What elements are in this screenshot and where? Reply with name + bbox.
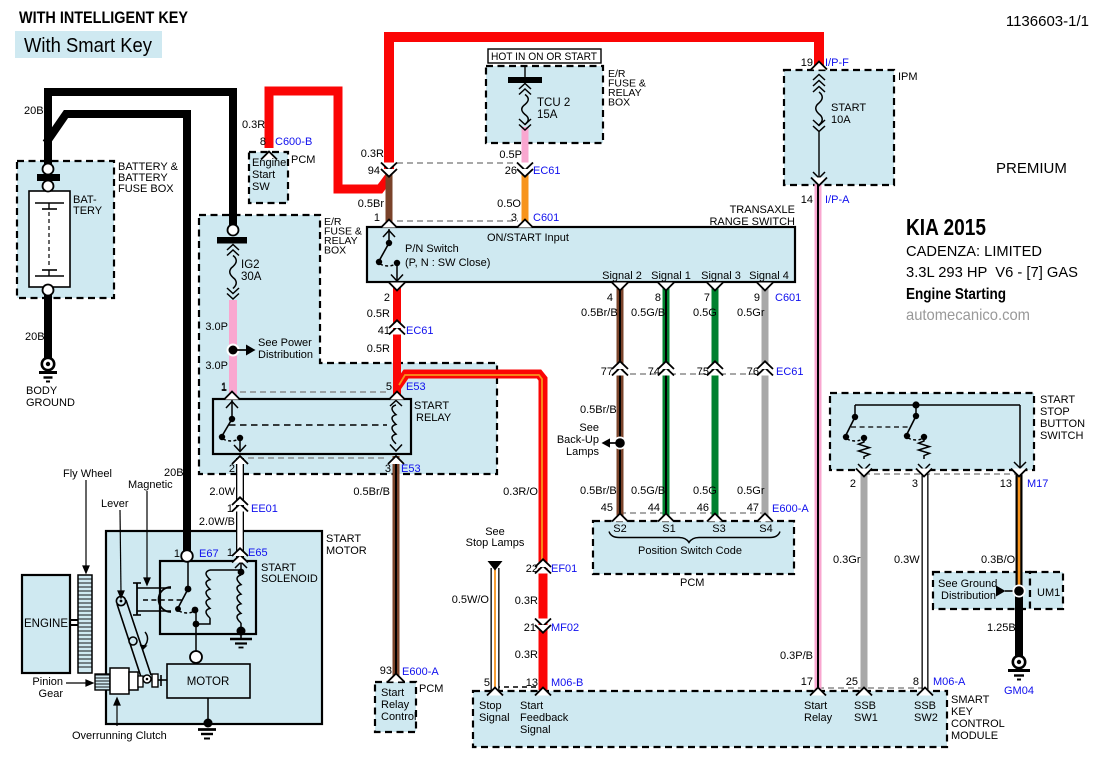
svg-text:S2: S2 bbox=[613, 523, 626, 535]
svg-text:Distribution: Distribution bbox=[941, 590, 996, 602]
svg-text:EF01: EF01 bbox=[551, 563, 577, 575]
svg-text:41: 41 bbox=[378, 325, 390, 337]
fly wheel bbox=[78, 575, 92, 673]
svg-text:BUTTON: BUTTON bbox=[1040, 418, 1085, 430]
ground GM04 bbox=[1008, 656, 1030, 680]
svg-text:ENGINE: ENGINE bbox=[24, 616, 68, 630]
svg-text:START: START bbox=[831, 102, 866, 114]
svg-text:4: 4 bbox=[607, 292, 613, 304]
start solenoid switch bbox=[175, 550, 202, 663]
svg-text:2: 2 bbox=[850, 478, 856, 490]
svg-text:0.5Br/B: 0.5Br/B bbox=[580, 404, 617, 416]
svg-text:M06-B: M06-B bbox=[551, 677, 583, 689]
svg-text:93: 93 bbox=[380, 665, 392, 677]
svg-text:0.5G/B: 0.5G/B bbox=[631, 485, 665, 497]
svg-text:3: 3 bbox=[385, 463, 391, 475]
svg-text:2: 2 bbox=[229, 463, 235, 475]
svg-text:SSB: SSB bbox=[854, 700, 876, 712]
connector 77 EC61 bbox=[612, 361, 628, 375]
wire 0.3B/O SSB pin13 to UM1 node (black/orange) bbox=[1016, 474, 1023, 592]
svg-text:START: START bbox=[1040, 394, 1075, 406]
svg-text:2.0W: 2.0W bbox=[209, 486, 235, 498]
svg-text:IG2: IG2 bbox=[241, 259, 260, 271]
svg-text:Start: Start bbox=[520, 700, 543, 712]
svg-text:STOP: STOP bbox=[1040, 406, 1070, 418]
connector line EC61 (94-26) bbox=[397, 162, 518, 164]
wire 20B battery to start motor E67 (black) bbox=[46, 114, 187, 552]
wire 0.3R/O relay pin5 node to EF01 pin22 (red/orange) bbox=[397, 374, 543, 564]
connector 13 M06-B bbox=[535, 688, 551, 696]
box: start relay control (PCM) bbox=[375, 682, 416, 732]
connector 3 E53 out bbox=[388, 456, 404, 464]
svg-text:1: 1 bbox=[174, 548, 180, 560]
svg-text:1: 1 bbox=[227, 547, 233, 559]
svg-text:EC61: EC61 bbox=[776, 366, 804, 378]
connector 17 M06-A bbox=[810, 688, 826, 696]
connector 2 transaxle out bbox=[389, 283, 405, 291]
svg-text:Start: Start bbox=[252, 169, 275, 181]
connector 1 ER box bbox=[381, 220, 397, 228]
svg-text:Gear: Gear bbox=[39, 688, 64, 700]
svg-text:KIA 2015: KIA 2015 bbox=[906, 214, 986, 240]
svg-text:Signal 4: Signal 4 bbox=[749, 270, 789, 282]
svg-text:0.5O: 0.5O bbox=[497, 198, 521, 210]
svg-text:BOX: BOX bbox=[324, 245, 346, 257]
svg-text:START: START bbox=[326, 533, 361, 545]
connector 3 M17 bbox=[916, 469, 932, 477]
svg-text:PCM: PCM bbox=[291, 154, 315, 166]
svg-text:0.3B/O: 0.3B/O bbox=[981, 554, 1016, 566]
svg-text:0.5Br/B: 0.5Br/B bbox=[580, 485, 617, 497]
box: E/R fuse & relay box (IG2 + start relay), L-shaped bbox=[199, 215, 497, 474]
svg-text:Control: Control bbox=[381, 711, 416, 723]
svg-text:0.5P: 0.5P bbox=[499, 149, 522, 161]
svg-text:SOLENOID: SOLENOID bbox=[261, 573, 318, 585]
svg-text:3: 3 bbox=[912, 478, 918, 490]
box: motor bbox=[167, 664, 250, 698]
svg-text:MOTOR: MOTOR bbox=[326, 545, 367, 557]
svg-text:GROUND: GROUND bbox=[26, 397, 75, 409]
box: HOT IN ON OR START bbox=[488, 49, 601, 63]
fuse IG2 30A bbox=[217, 225, 247, 300]
svg-text:0.5Br/B: 0.5Br/B bbox=[353, 486, 390, 498]
svg-text:GM04: GM04 bbox=[1004, 685, 1034, 697]
svg-text:3: 3 bbox=[511, 212, 517, 224]
connector line E600-A signals (45-47) bbox=[620, 512, 768, 514]
svg-text:15A: 15A bbox=[537, 109, 558, 121]
svg-text:8: 8 bbox=[913, 676, 919, 688]
svg-text:0.3R: 0.3R bbox=[515, 595, 538, 607]
start relay switch contact bbox=[219, 399, 246, 452]
connector 2 E53 out bbox=[232, 456, 248, 464]
svg-text:EE01: EE01 bbox=[251, 503, 278, 515]
wire 1.25B UM1 node to GM04 ground (black) bbox=[1015, 590, 1023, 656]
svg-text:Relay: Relay bbox=[804, 712, 833, 724]
svg-text:0.3P/B: 0.3P/B bbox=[780, 650, 813, 662]
body ground symbol bbox=[39, 358, 57, 382]
svg-text:I/P-A: I/P-A bbox=[825, 194, 850, 206]
svg-text:I/P-F: I/P-F bbox=[825, 57, 849, 69]
svg-text:Signal 1: Signal 1 bbox=[651, 270, 691, 282]
svg-text:1: 1 bbox=[227, 503, 233, 515]
svg-text:0.3R: 0.3R bbox=[515, 649, 538, 661]
svg-text:Lever: Lever bbox=[101, 498, 129, 510]
see stop lamps arrow bbox=[488, 561, 503, 571]
svg-text:20B: 20B bbox=[164, 467, 184, 479]
svg-text:13: 13 bbox=[1000, 478, 1012, 490]
wire 2.0W relay pin2 to EE01 to E65 (white) bbox=[236, 458, 244, 558]
svg-text:0.3W: 0.3W bbox=[894, 554, 920, 566]
svg-text:19: 19 bbox=[801, 57, 813, 69]
connector 8 C601 bbox=[658, 283, 674, 291]
svg-text:Fly Wheel: Fly Wheel bbox=[63, 468, 112, 480]
wire 20B battery to body ground (black) bbox=[44, 292, 52, 358]
box: battery & battery fuse box bbox=[17, 161, 114, 298]
solenoid plunger (magnetic) bbox=[133, 583, 184, 615]
svg-text:0.5Gr: 0.5Gr bbox=[737, 307, 765, 319]
svg-text:MF02: MF02 bbox=[551, 622, 579, 634]
svg-text:HOT IN ON OR START: HOT IN ON OR START bbox=[491, 51, 597, 63]
svg-text:(P, N : SW Close): (P, N : SW Close) bbox=[405, 257, 490, 269]
wire 0.5R transaxle pin2 to EC61 41 to relay pin5 (red) bbox=[393, 284, 401, 396]
svg-text:START: START bbox=[414, 400, 449, 412]
wire 0.3R EF01 to MF02 to M06-B pin13 (red) bbox=[539, 568, 548, 690]
svg-text:5: 5 bbox=[484, 677, 490, 689]
svg-text:SW: SW bbox=[252, 181, 270, 193]
svg-text:Overrunning Clutch: Overrunning Clutch bbox=[72, 730, 167, 742]
svg-text:PCM: PCM bbox=[680, 577, 704, 589]
svg-text:M06-A: M06-A bbox=[933, 676, 966, 688]
svg-text:MODULE: MODULE bbox=[951, 730, 998, 742]
connector 22 EF01 bbox=[535, 559, 551, 573]
svg-text:P/N Switch: P/N Switch bbox=[405, 243, 459, 255]
connector 1 E53 pink bbox=[224, 392, 240, 400]
wire 0.3Gr SSB pin2 to M06-A pin25 (gray) bbox=[861, 474, 868, 690]
motor to ground bbox=[198, 698, 216, 739]
svg-text:E53: E53 bbox=[401, 463, 421, 475]
svg-text:75: 75 bbox=[697, 366, 709, 378]
svg-text:14: 14 bbox=[801, 194, 813, 206]
svg-text:8: 8 bbox=[655, 292, 661, 304]
svg-text:CONTROL: CONTROL bbox=[951, 718, 1005, 730]
svg-text:CADENZA: LIMITED: CADENZA: LIMITED bbox=[906, 243, 1042, 260]
wire 0.5Br/B relay pin3 to E600-A pin93 (brown/black) bbox=[393, 456, 400, 677]
svg-text:1: 1 bbox=[221, 381, 227, 393]
svg-text:BODY: BODY bbox=[26, 385, 58, 397]
svg-text:0.5G: 0.5G bbox=[693, 485, 717, 497]
box: start stop button switch bbox=[830, 393, 1034, 470]
svg-text:UM1: UM1 bbox=[1037, 587, 1060, 599]
connector line E53 bottom (2-3) bbox=[248, 457, 388, 459]
svg-text:0.5Br: 0.5Br bbox=[358, 198, 385, 210]
svg-text:0.5R: 0.5R bbox=[367, 343, 390, 355]
svg-text:SMART: SMART bbox=[951, 694, 990, 706]
see back-up lamps node bbox=[602, 437, 627, 450]
svg-text:2.0W/B: 2.0W/B bbox=[199, 516, 235, 528]
connector line M06-A (17-8) bbox=[818, 687, 925, 689]
svg-text:See Ground: See Ground bbox=[938, 578, 997, 590]
box: UM1 bbox=[1030, 572, 1063, 609]
svg-text:S3: S3 bbox=[712, 523, 725, 535]
svg-text:46: 46 bbox=[697, 502, 709, 514]
box: engine bbox=[22, 575, 70, 673]
svg-text:ON/START Input: ON/START Input bbox=[487, 232, 569, 244]
svg-text:Feedback: Feedback bbox=[520, 712, 569, 724]
wire 0.5Gr signal4 (gray) bbox=[762, 284, 769, 520]
box: start motor bbox=[106, 531, 322, 724]
wire 0.5P TCU2 fuse to EC61 pin26 (pink) bbox=[522, 127, 529, 168]
connector 14 I/P-A bbox=[811, 178, 827, 186]
svg-text:automecanico.com: automecanico.com bbox=[906, 307, 1030, 324]
wire 3.0P IG2 fuse to start relay pin1 (pink) bbox=[229, 300, 237, 396]
svg-text:1: 1 bbox=[374, 212, 380, 224]
wire 0.3P/B IPM I/P-A to smart key pin17 (pink/black) bbox=[815, 184, 822, 690]
svg-text:EC61: EC61 bbox=[406, 325, 434, 337]
connector 1 EE01 bbox=[232, 497, 248, 511]
box: smart key control module bbox=[473, 691, 947, 747]
svg-text:Signal 3: Signal 3 bbox=[701, 270, 741, 282]
connector 4 C601 bbox=[612, 283, 628, 291]
svg-text:76: 76 bbox=[747, 366, 759, 378]
connector 93 E600-A bbox=[388, 674, 404, 682]
svg-text:94: 94 bbox=[368, 165, 380, 177]
connector 46 E600-A bbox=[707, 514, 723, 522]
svg-text:47: 47 bbox=[747, 502, 759, 514]
svg-text:TERY: TERY bbox=[73, 205, 103, 217]
svg-text:0.3R: 0.3R bbox=[242, 119, 265, 131]
svg-text:22: 22 bbox=[526, 563, 538, 575]
connector 9 C601 bbox=[757, 283, 773, 291]
connector line M17 (2-13) bbox=[864, 473, 1019, 475]
svg-text:8: 8 bbox=[260, 136, 266, 148]
connector line E53 top (1-5) bbox=[240, 391, 389, 393]
connector 47 E600-A bbox=[757, 514, 773, 522]
svg-text:E67: E67 bbox=[199, 548, 219, 560]
battery terminal connector circles bbox=[43, 164, 54, 175]
svg-text:C601: C601 bbox=[533, 212, 559, 224]
start stop button switch internals bbox=[843, 401, 1026, 470]
svg-text:Stop Lamps: Stop Lamps bbox=[466, 537, 525, 549]
box: start relay bbox=[213, 399, 411, 454]
box: see ground distribution bbox=[933, 572, 1030, 609]
fusible link bar bbox=[37, 174, 60, 181]
svg-text:E600-A: E600-A bbox=[402, 666, 439, 678]
svg-text:10A: 10A bbox=[831, 114, 851, 126]
svg-text:See: See bbox=[579, 422, 599, 434]
connector 5 M06-B bbox=[487, 688, 503, 696]
wire 0.3R C600-B to node 94 (red) bbox=[269, 91, 389, 189]
svg-text:Signal 2: Signal 2 bbox=[602, 270, 642, 282]
connector 44 E600-A bbox=[658, 514, 674, 522]
connector 13 M17 bbox=[1011, 469, 1027, 477]
svg-text:0.5Br/B: 0.5Br/B bbox=[581, 307, 618, 319]
wire 0.5W/O stop lamps to pin5 (white/orange) bbox=[491, 568, 500, 691]
svg-text:E53: E53 bbox=[406, 381, 426, 393]
overrunning clutch assembly bbox=[110, 668, 167, 694]
svg-text:Engine Starting: Engine Starting bbox=[906, 286, 1006, 303]
svg-text:E65: E65 bbox=[248, 547, 268, 559]
svg-text:Position Switch Code: Position Switch Code bbox=[638, 545, 742, 557]
battery BAT bbox=[29, 191, 70, 287]
svg-text:Distribution: Distribution bbox=[258, 349, 313, 361]
svg-text:0.3Gr: 0.3Gr bbox=[833, 554, 861, 566]
svg-text:25: 25 bbox=[846, 676, 858, 688]
svg-text:M17: M17 bbox=[1027, 478, 1048, 490]
wire 20B battery to IG2 fuse (black) bbox=[48, 92, 233, 226]
svg-text:74: 74 bbox=[648, 366, 660, 378]
wire 0.3R main vertical to node 94 (red) bbox=[389, 37, 819, 170]
svg-text:SSB: SSB bbox=[914, 700, 936, 712]
connector 26 EC61 bbox=[517, 163, 533, 177]
svg-text:2: 2 bbox=[384, 292, 390, 304]
svg-text:With Smart Key: With Smart Key bbox=[24, 35, 152, 57]
connector 94 EC61 bbox=[381, 163, 397, 177]
svg-text:SW2: SW2 bbox=[914, 712, 938, 724]
svg-text:Back-Up: Back-Up bbox=[557, 434, 599, 446]
svg-text:20B: 20B bbox=[25, 331, 45, 343]
svg-text:Engine: Engine bbox=[252, 157, 286, 169]
box: IPM bbox=[784, 70, 894, 185]
see power distribution node bbox=[227, 344, 256, 357]
start relay coil bbox=[390, 401, 402, 452]
svg-text:SW1: SW1 bbox=[854, 712, 878, 724]
svg-text:44: 44 bbox=[648, 502, 660, 514]
svg-text:Start: Start bbox=[804, 700, 827, 712]
label arrows (fly wheel, magnetic, lever, pinion, clutch) bbox=[66, 480, 150, 726]
svg-text:S1: S1 bbox=[662, 523, 675, 535]
box: start solenoid bbox=[160, 561, 256, 634]
svg-text:0.3R/O: 0.3R/O bbox=[503, 486, 538, 498]
box: Engine Start SW (PCM) bbox=[249, 152, 288, 203]
svg-text:RANGE SWITCH: RANGE SWITCH bbox=[709, 216, 795, 228]
connector 7 C601 bbox=[707, 283, 723, 291]
svg-text:SWITCH: SWITCH bbox=[1040, 430, 1083, 442]
connector 1 E65 bbox=[232, 548, 248, 562]
svg-text:0.5G: 0.5G bbox=[693, 307, 717, 319]
connector 8 C600-B bbox=[261, 152, 277, 160]
svg-text:Signal: Signal bbox=[520, 724, 551, 736]
wire 0.5G/B signal1 (green/black) bbox=[663, 284, 670, 520]
start solenoid hold-in coil and ground bbox=[230, 575, 252, 648]
start relay internal dashed line bbox=[229, 424, 387, 426]
svg-text:C600-B: C600-B bbox=[275, 136, 312, 148]
svg-text:Lamps: Lamps bbox=[566, 446, 600, 458]
svg-text:Magnetic: Magnetic bbox=[128, 479, 173, 491]
svg-text:9: 9 bbox=[754, 292, 760, 304]
connector 19 I/P-F bbox=[811, 62, 827, 70]
connector 76 EC61 bbox=[757, 361, 773, 375]
connector 74 EC61 bbox=[658, 361, 674, 375]
connector line C601 (1-3) bbox=[397, 220, 518, 222]
svg-text:Signal: Signal bbox=[479, 712, 510, 724]
svg-text:KEY: KEY bbox=[951, 706, 974, 718]
connector 75 EC61 bbox=[707, 361, 723, 375]
svg-text:Start: Start bbox=[381, 687, 404, 699]
svg-text:26: 26 bbox=[505, 165, 517, 177]
svg-text:5: 5 bbox=[386, 381, 392, 393]
svg-text:See Power: See Power bbox=[258, 337, 312, 349]
wire 0.5O EC61 to C601 pin3 (orange) bbox=[522, 170, 529, 226]
see ground distribution node UM1 bbox=[996, 585, 1026, 598]
start solenoid pull-in coil bbox=[199, 562, 247, 624]
svg-text:77: 77 bbox=[601, 366, 613, 378]
svg-text:Relay: Relay bbox=[381, 699, 410, 711]
svg-text:20B: 20B bbox=[24, 105, 44, 117]
svg-text:21: 21 bbox=[524, 622, 536, 634]
connector line EC61 signals (77-76) bbox=[620, 373, 772, 375]
connector line M06-B (5-13) bbox=[495, 686, 543, 688]
connector 21 MF02 bbox=[535, 619, 551, 633]
svg-text:1136603-1/1: 1136603-1/1 bbox=[1006, 13, 1089, 30]
svg-text:0.5W/O: 0.5W/O bbox=[452, 594, 490, 606]
fuse TCU 2 15A bbox=[508, 66, 542, 130]
box: transaxle range switch bbox=[367, 227, 795, 282]
braces under S labels bbox=[609, 532, 780, 543]
svg-text:MOTOR: MOTOR bbox=[187, 676, 230, 688]
P/N switch symbol bbox=[376, 229, 403, 281]
svg-text:0.5G/B: 0.5G/B bbox=[631, 307, 665, 319]
lever bbox=[116, 596, 151, 680]
box: E/R fuse & relay box (TCU2) bbox=[486, 66, 603, 143]
svg-text:EC61: EC61 bbox=[533, 165, 561, 177]
svg-text:Pinion: Pinion bbox=[32, 676, 63, 688]
wire 0.5Br/B signal2 (brown/black) bbox=[617, 284, 624, 520]
connector 5 E53 bbox=[389, 392, 405, 400]
wire 0.5G signal3 (green) bbox=[712, 284, 719, 520]
svg-text:PREMIUM: PREMIUM bbox=[996, 160, 1067, 177]
box: PCM (position switch code) bbox=[593, 521, 794, 574]
svg-text:0.5Gr: 0.5Gr bbox=[737, 485, 765, 497]
wire 0.3W SSB pin3 to M06-A pin8 (white) bbox=[922, 474, 929, 690]
svg-text:7: 7 bbox=[704, 292, 710, 304]
svg-text:S4: S4 bbox=[759, 523, 772, 535]
connector 45 E600-A bbox=[612, 514, 628, 522]
connector 3 C601 bbox=[517, 220, 533, 228]
svg-text:Stop: Stop bbox=[479, 700, 502, 712]
svg-text:C601: C601 bbox=[775, 292, 801, 304]
pinion gear bbox=[95, 674, 110, 690]
connector 8 M06-A bbox=[917, 688, 933, 696]
svg-text:30A: 30A bbox=[241, 271, 262, 283]
connector 25 M06-A bbox=[856, 688, 872, 696]
connector 2 M17 bbox=[856, 469, 872, 477]
box: With Smart Key highlight bbox=[15, 31, 162, 58]
svg-text:17: 17 bbox=[801, 676, 813, 688]
svg-text:3.3L 293 HP V6 - [7] GAS: 3.3L 293 HP V6 - [7] GAS bbox=[906, 264, 1078, 281]
svg-text:RELAY: RELAY bbox=[416, 412, 452, 424]
svg-text:E600-A: E600-A bbox=[772, 503, 809, 515]
svg-text:TRANSAXLE: TRANSAXLE bbox=[730, 204, 795, 216]
svg-text:0.3R: 0.3R bbox=[361, 148, 384, 160]
svg-text:1.25B: 1.25B bbox=[987, 622, 1016, 634]
wire 0.5Br node 94 to P/N switch pin1 (brown) bbox=[386, 172, 393, 226]
fuse START 10A bbox=[813, 75, 825, 179]
svg-text:3.0P: 3.0P bbox=[205, 321, 228, 333]
svg-text:45: 45 bbox=[601, 502, 613, 514]
svg-text:PCM: PCM bbox=[419, 683, 443, 695]
svg-text:TCU 2: TCU 2 bbox=[537, 97, 570, 109]
svg-text:WITH INTELLIGENT KEY: WITH INTELLIGENT KEY bbox=[19, 8, 189, 27]
svg-text:BOX: BOX bbox=[608, 97, 630, 109]
connector 41 EC61 bbox=[389, 320, 405, 334]
svg-text:3.0P: 3.0P bbox=[205, 360, 228, 372]
svg-text:13: 13 bbox=[526, 677, 538, 689]
svg-text:IPM: IPM bbox=[898, 71, 918, 83]
svg-text:FUSE BOX: FUSE BOX bbox=[118, 183, 174, 195]
svg-text:0.5R: 0.5R bbox=[367, 308, 390, 320]
engine to flywheel link bbox=[70, 620, 78, 625]
